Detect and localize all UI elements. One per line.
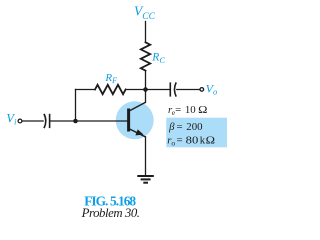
svg-text:VCC: VCC bbox=[134, 4, 156, 22]
svg-text:Problem 30.: Problem 30. bbox=[81, 206, 140, 220]
capacitor C2 (output) bbox=[170, 82, 176, 96]
terminal Vi circle bbox=[18, 119, 22, 123]
wire RF to node to output capacitor bbox=[126, 89, 170, 91]
transistor Q1 body circle bbox=[116, 101, 154, 139]
parameter highlight box bbox=[166, 118, 227, 148]
terminal Vo circle bbox=[200, 88, 204, 92]
wire feedback top-left segment bbox=[76, 89, 96, 91]
wire collector vertical bbox=[145, 90, 147, 103]
resistor RC bbox=[141, 42, 150, 70]
wire output capacitor to Vo terminal bbox=[177, 89, 200, 91]
resistor RF bbox=[95, 85, 126, 94]
svg-text:re=10Ω: re=10Ω bbox=[168, 104, 208, 117]
svg-text:Vo: Vo bbox=[206, 82, 218, 97]
ground bbox=[137, 176, 154, 183]
svg-text:RC: RC bbox=[151, 52, 165, 65]
node A (collector junction dot) bbox=[143, 87, 148, 92]
wire input capacitor to base bbox=[51, 120, 128, 122]
svg-text:RF: RF bbox=[104, 72, 117, 85]
wire input terminal to capacitor bbox=[22, 120, 43, 122]
capacitor C1 (input) bbox=[44, 114, 50, 128]
svg-text:Vi: Vi bbox=[6, 112, 17, 127]
node B (base junction dot) bbox=[73, 119, 78, 124]
wire left vertical from corner to input junction bbox=[75, 90, 77, 122]
transistor Q1 symbol bbox=[129, 102, 146, 137]
transistor emitter arrow bbox=[135, 129, 143, 135]
wire emitter vertical down to ground bbox=[145, 137, 147, 175]
wire RC bottom to node bbox=[145, 71, 147, 90]
wire Vcc lead bbox=[145, 22, 147, 43]
